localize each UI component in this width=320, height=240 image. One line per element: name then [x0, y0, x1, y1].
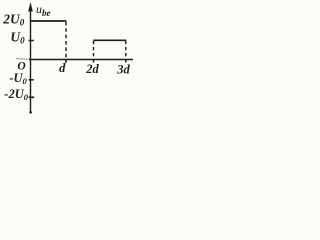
pulse 2 top edge at U0 — [93, 39, 126, 41]
tick 3d — [125, 60, 127, 63]
pulse 1 top edge at 2U0 — [30, 20, 67, 22]
y-axis arrow head — [28, 2, 33, 12]
svg-text:-2U0: -2U0 — [4, 87, 28, 102]
svg-text:-U0: -U0 — [9, 71, 27, 86]
svg-text:2U0: 2U0 — [2, 12, 25, 28]
tick d — [65, 60, 67, 63]
svg-text:2d: 2d — [85, 62, 99, 76]
pulse 2 left edge dashed at 2d — [93, 41, 95, 59]
tick -2U0 — [29, 96, 35, 98]
pulse 2 right edge dashed at 3d — [125, 41, 127, 59]
y-axis lower end dot — [29, 111, 32, 114]
svg-text:ube: ube — [36, 2, 51, 18]
y-axis — [30, 9, 32, 113]
tick U0 — [29, 40, 34, 42]
svg-text:3d: 3d — [116, 63, 130, 77]
svg-text:d: d — [59, 61, 66, 75]
svg-text:U0: U0 — [10, 30, 25, 46]
faint stroke left of origin — [16, 58, 29, 61]
tick -U0 — [29, 79, 34, 81]
x-axis — [29, 59, 133, 61]
tick 2d — [93, 60, 95, 63]
pulse 1 falling edge dashed at d — [65, 22, 67, 59]
